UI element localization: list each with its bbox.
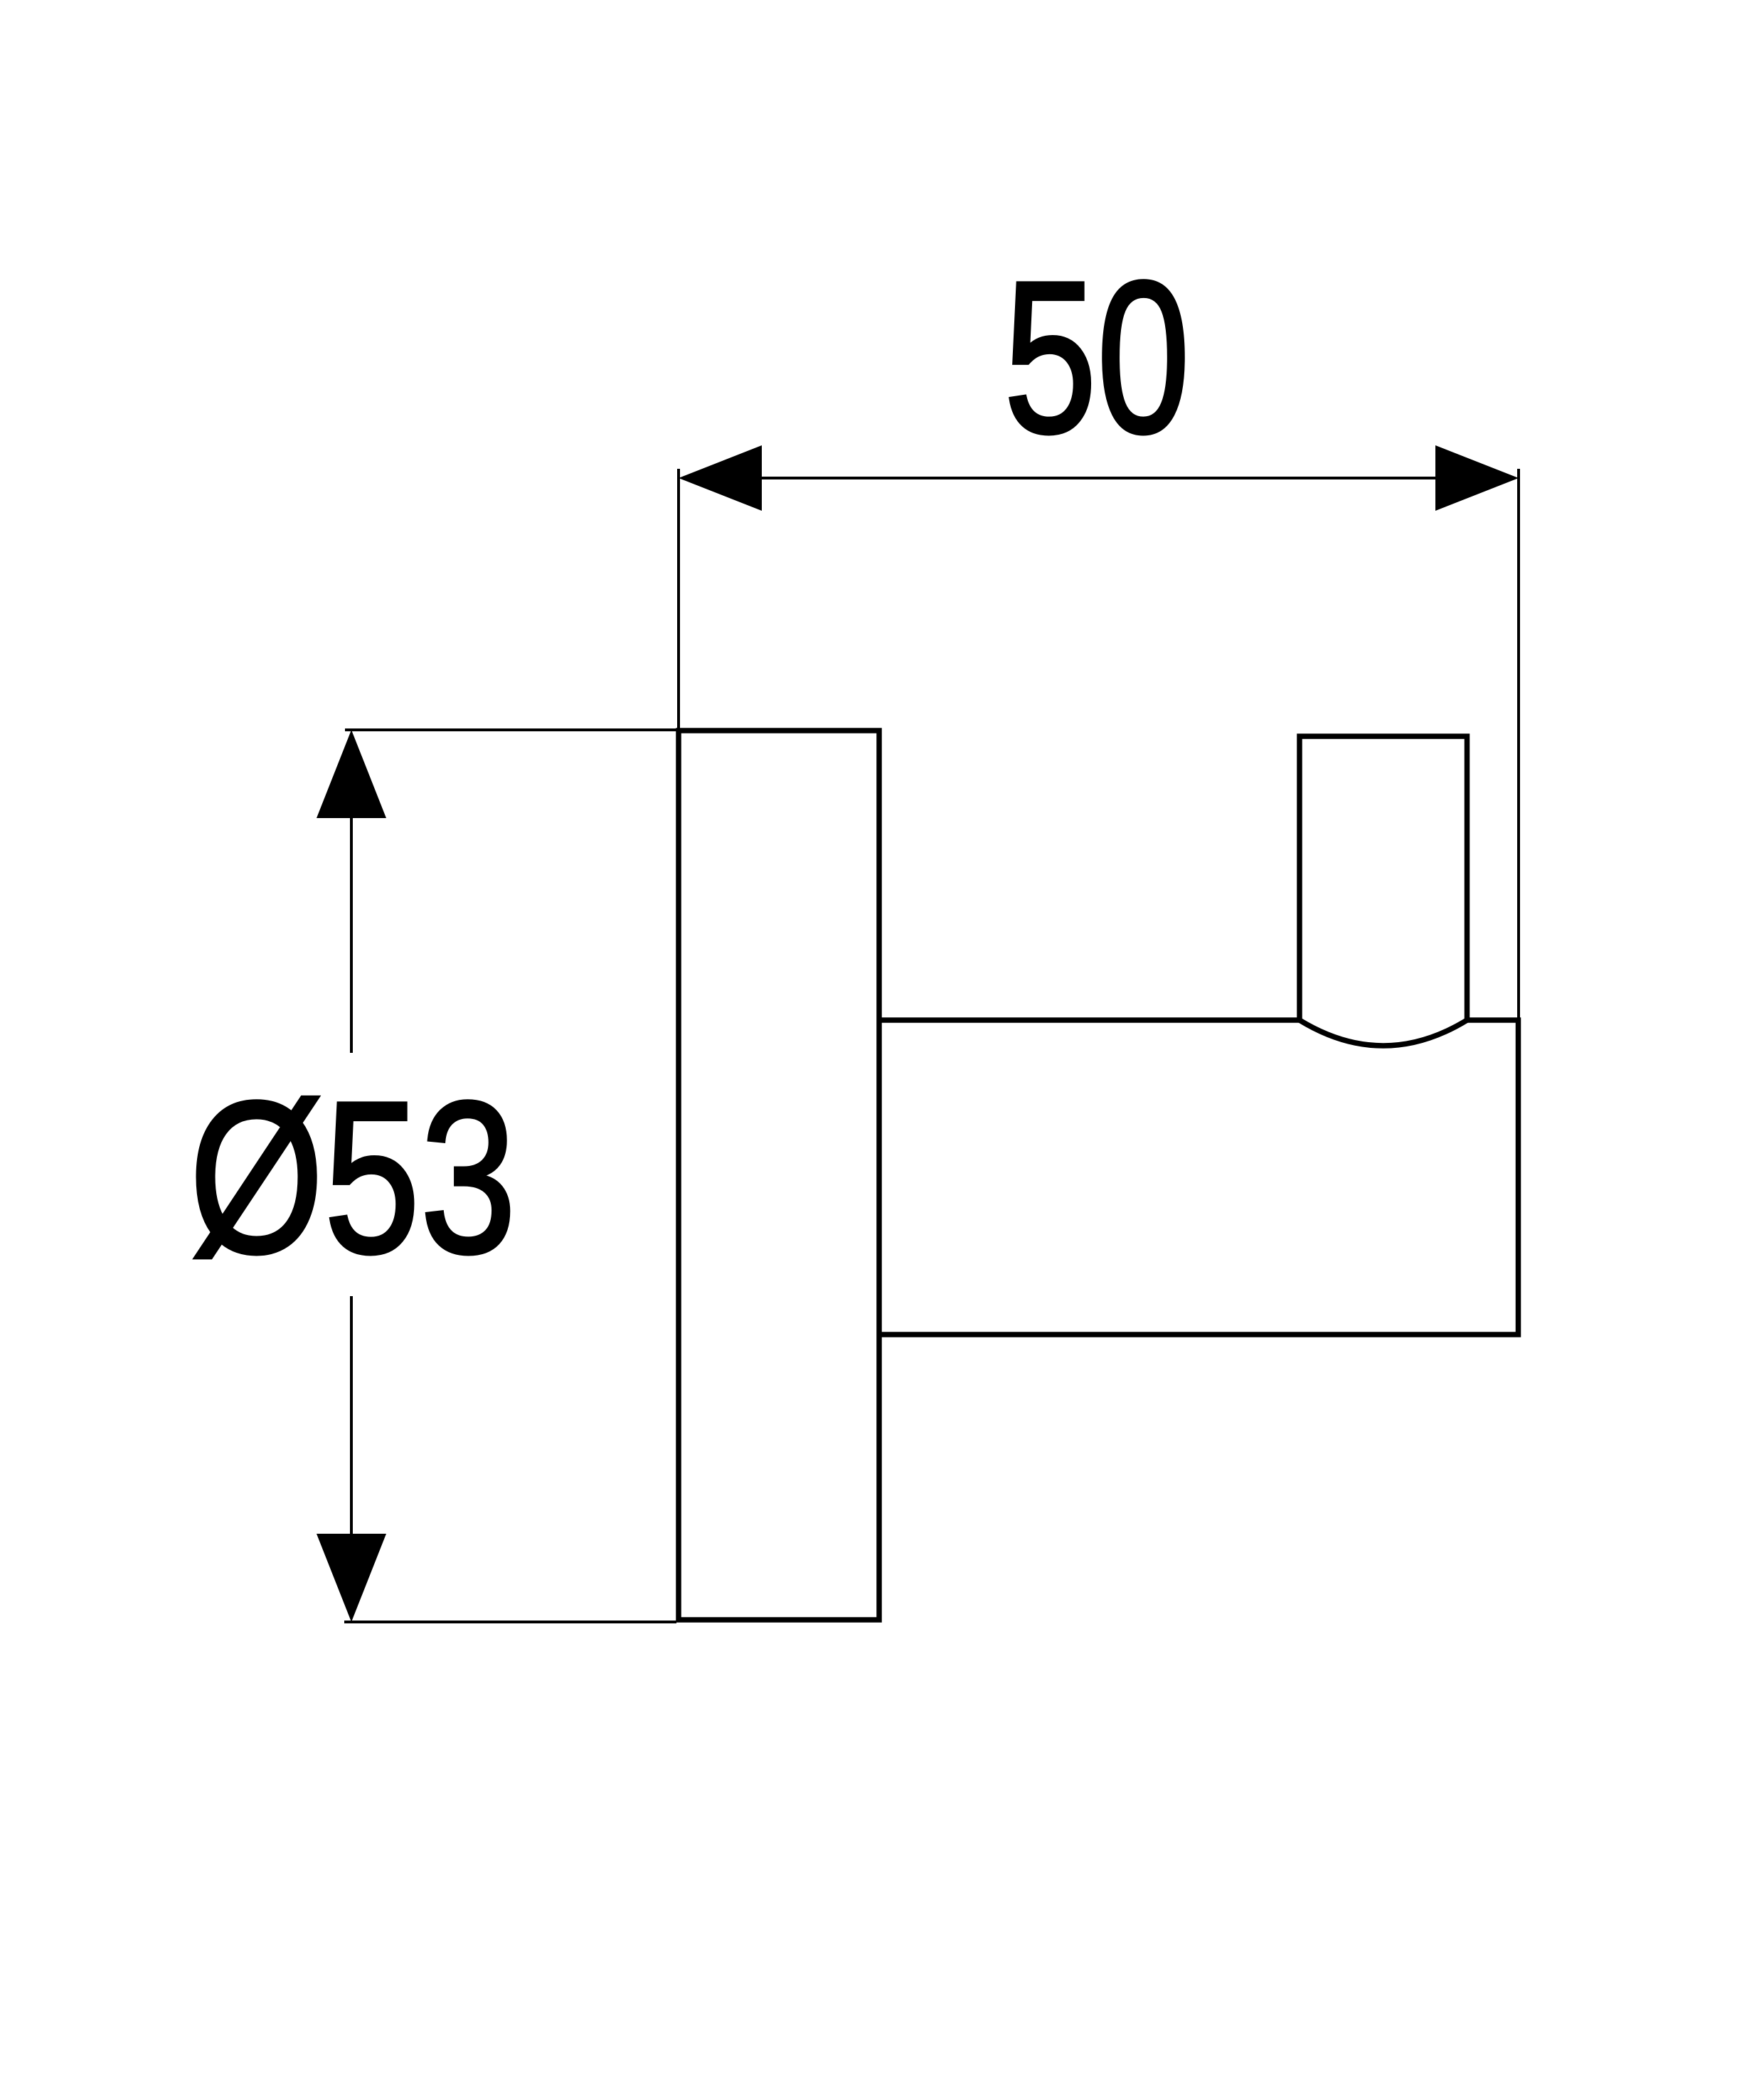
svg-text:Ø53: Ø53 [189,1057,516,1298]
svg-text:50: 50 [1004,237,1190,478]
